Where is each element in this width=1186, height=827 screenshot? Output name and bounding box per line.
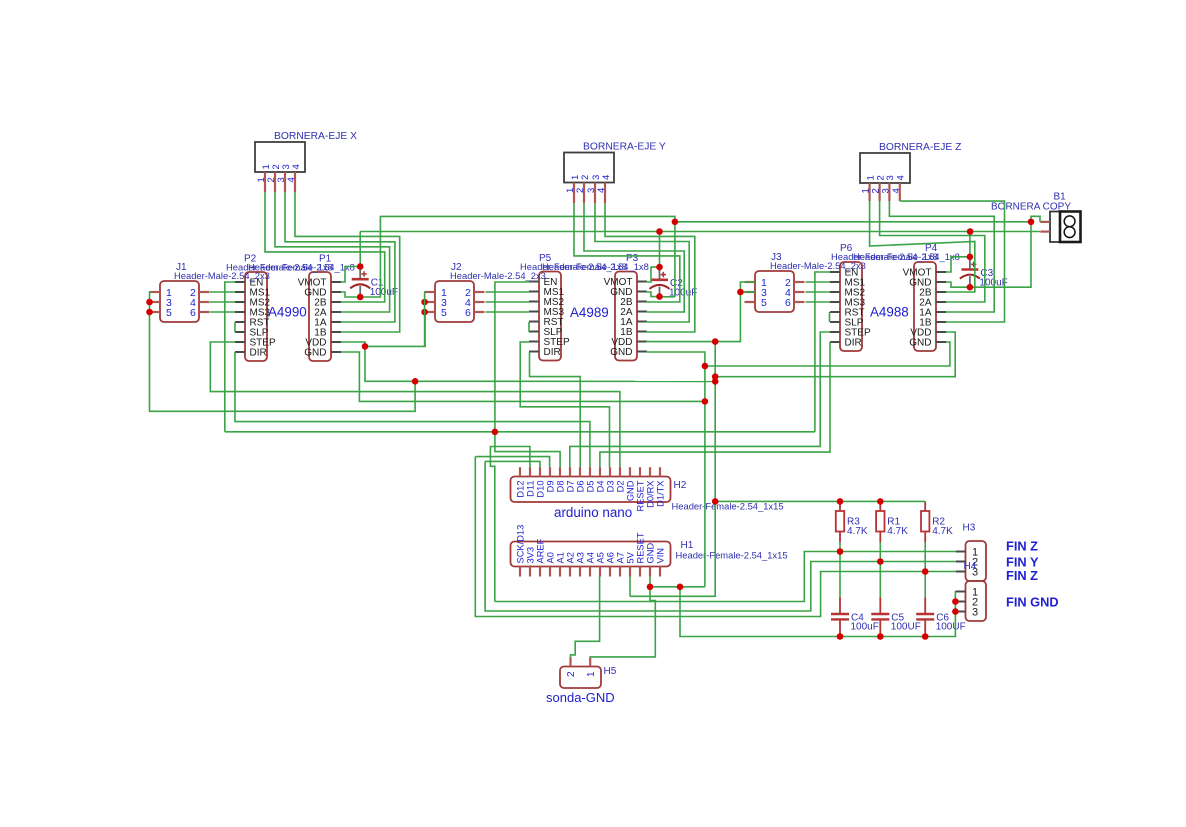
svg-text:5: 5 [166, 307, 172, 319]
capacitor C3 [960, 257, 980, 287]
label Header-Female P5 (overlapped) [520, 261, 627, 272]
wire VDD3 link [715, 332, 955, 377]
svg-text:4: 4 [286, 177, 297, 182]
label Header-Male J3 [770, 260, 866, 271]
wire MS3 driver2 [486, 311, 530, 313]
wire D10 drop [485, 461, 540, 467]
svg-text:2: 2 [580, 175, 591, 180]
header P5 box [539, 272, 561, 361]
svg-text:A3: A3 [576, 552, 586, 563]
junction dot VDD1 [362, 343, 369, 350]
label A4988 [870, 305, 909, 320]
svg-text:A6: A6 [606, 552, 616, 563]
wire GND pin drop H1 [649, 577, 651, 587]
wire GND to H5 pin1 [590, 587, 655, 657]
svg-text:3: 3 [972, 606, 978, 618]
header P4 box [914, 262, 936, 351]
label R1 value [887, 526, 908, 537]
junction dots resistor top bus [837, 498, 884, 505]
wire VDD2 to J3 [715, 282, 755, 342]
pins of P3 [604, 277, 647, 358]
label Header-Female H1 [676, 550, 788, 561]
wire 1B driver3 to bornera Z pin4 [900, 201, 1005, 322]
label FIN GND [1006, 594, 1059, 609]
label J2 [451, 262, 462, 273]
wire 2A driver1 to bornera X pin2 [275, 192, 390, 312]
junction dots H4 [952, 598, 959, 615]
svg-text:GND: GND [646, 543, 656, 564]
wire C1 to VMOT bus [359, 232, 361, 267]
svg-text:SCK/D13: SCK/D13 [516, 525, 526, 564]
wire DIR2 to D6 [530, 352, 581, 467]
svg-text:A0: A0 [546, 552, 556, 563]
wire VDD1 to J2 [365, 312, 425, 346]
wire A5 to H5 pin2 [571, 577, 600, 658]
junction dots VMOT bus [656, 228, 973, 235]
connector H4 box [966, 581, 987, 621]
wire B1 pin1 jog [1031, 216, 1040, 222]
wire R1 to C5 node [879, 542, 881, 597]
pin 3 of BX [276, 164, 292, 192]
label FIN Y [1006, 555, 1039, 570]
svg-text:100UF: 100UF [936, 622, 966, 633]
svg-text:FIN Z: FIN Z [1006, 539, 1038, 554]
wire GND to H1 [650, 586, 705, 588]
wire EN bus [225, 431, 815, 433]
wire MS2 driver3 [806, 291, 831, 293]
label FIN Z (2) [1006, 568, 1038, 583]
label BORNERA COPY [991, 202, 1071, 213]
pin 1 of BX [256, 164, 272, 192]
label P6 [840, 243, 853, 254]
wire STEP2 to D3 [520, 342, 609, 467]
junction dots GND H1 [647, 584, 684, 591]
connector H5 box [560, 667, 601, 689]
label FIN Z [1006, 539, 1038, 554]
svg-text:Header-Female-2.54_1x15: Header-Female-2.54_1x15 [676, 550, 788, 561]
svg-text:D1/TX: D1/TX [656, 481, 666, 507]
svg-text:H4: H4 [964, 561, 977, 572]
capacitor C4 [831, 597, 849, 636]
wire 1A driver3 to bornera Z pin3 [889, 201, 994, 312]
wire C3 to VMOT bus [969, 232, 971, 257]
label R3 value [847, 526, 868, 537]
svg-text:2: 2 [566, 671, 577, 677]
label Header-Female P4 (overlapped) [853, 251, 960, 262]
pins of J1 [150, 287, 210, 319]
wire FIN Y line from D10 [485, 461, 956, 611]
wire MS3 driver1 [210, 311, 235, 313]
wire D11 hook [490, 447, 530, 602]
svg-text:1: 1 [586, 671, 597, 677]
wire GND1 pin2 to C1 [341, 292, 360, 297]
pin 1 of BY [565, 175, 581, 203]
svg-text:A2: A2 [566, 552, 576, 563]
label P3 [626, 253, 639, 264]
wire J3 pin3 nub [740, 291, 755, 293]
svg-text:4: 4 [291, 164, 302, 169]
label arduino nano [554, 505, 632, 520]
wire 2B driver3 to bornera Z pin1 [870, 201, 975, 292]
wire 1B driver1 to bornera X pin4 [295, 192, 400, 332]
junction dots GND bus [672, 219, 1035, 226]
wire MS1 driver3 [806, 281, 831, 283]
svg-text:4: 4 [891, 188, 902, 193]
label C6 [936, 613, 949, 624]
pins of J2 [425, 287, 485, 319]
resistor R1 [876, 501, 884, 542]
label P1 [319, 254, 332, 265]
svg-text:D6: D6 [576, 481, 586, 493]
wire 5V pin drop [629, 577, 631, 597]
wire GND bus east [675, 221, 1031, 223]
svg-text:A1: A1 [556, 552, 566, 563]
label H4 [964, 561, 977, 572]
svg-text:Header-Female-2.54_1x8: Header-Female-2.54_1x8 [542, 261, 649, 272]
svg-text:Header-Female-2.54_1x8: Header-Female-2.54_1x8 [853, 251, 960, 262]
pins of P6 [830, 268, 871, 349]
svg-text:3V3: 3V3 [526, 547, 536, 564]
label C1 [371, 278, 384, 289]
label BORNERA-EJE X [274, 131, 357, 142]
wire C2 to VMOT bus [659, 232, 661, 268]
pins of H2 [516, 467, 666, 511]
svg-text:BORNERA-EJE Z: BORNERA-EJE Z [879, 142, 961, 153]
label Header-Female P6 (overlapped) [831, 251, 938, 262]
junction dot VDD bus west [412, 378, 419, 385]
label B1 [1054, 192, 1067, 203]
svg-text:2: 2 [575, 188, 586, 193]
junction dots GND2 chain [702, 363, 709, 405]
wire H4 pin2 nub [954, 601, 957, 603]
label P4 [925, 243, 938, 254]
wire RST-SLP bracket driver3 [829, 312, 831, 322]
label Header-Male J2 [450, 270, 546, 281]
wire VMOT bus [360, 231, 1040, 233]
label C2 value [669, 288, 697, 299]
wire RST-SLP bracket driver1 [234, 322, 236, 332]
wire GND to caps bottom bus [680, 587, 956, 637]
svg-text:4.7K: 4.7K [847, 526, 868, 537]
svg-text:BORNERA COPY: BORNERA COPY [991, 202, 1071, 213]
svg-text:Header-Male-2.54_2x3: Header-Male-2.54_2x3 [450, 270, 546, 281]
svg-text:100UF: 100UF [891, 622, 921, 633]
connector B1 BORNERA COPY [1040, 212, 1080, 243]
connector BY box (BORNERA-EJE Y) [564, 153, 614, 183]
svg-text:GND: GND [909, 338, 931, 349]
label R2 value [932, 526, 953, 537]
pins of H5 [566, 657, 597, 677]
svg-text:H2: H2 [674, 480, 687, 491]
resistor R3 [836, 501, 844, 542]
svg-text:4: 4 [896, 175, 907, 180]
wire VDD to J1 bus [150, 292, 416, 411]
svg-text:A4: A4 [586, 552, 596, 563]
pin 3 of BY [586, 175, 602, 203]
label A4990 [268, 305, 307, 320]
pins of P2 [235, 278, 276, 359]
wire VMOT2 to C2 [646, 267, 660, 282]
label Header-Male J1 [174, 270, 270, 281]
svg-text:6: 6 [785, 297, 791, 309]
svg-text:BORNERA-EJE X: BORNERA-EJE X [274, 131, 357, 142]
connector J3 box [755, 271, 794, 312]
label C1 value [370, 287, 398, 298]
label Header-Female H2 [672, 501, 784, 512]
wire MS2 driver2 [486, 301, 530, 303]
header H2 box [511, 477, 671, 503]
svg-text:Header-Male-2.54_2x3: Header-Male-2.54_2x3 [770, 260, 866, 271]
label C3 value [979, 277, 1007, 288]
svg-text:3: 3 [880, 188, 891, 193]
pins of H1 [516, 525, 666, 577]
svg-text:D10: D10 [536, 481, 546, 498]
pin 4 of BX [286, 164, 302, 192]
wire VMOT3 to C3 [946, 257, 970, 272]
wire GND2 pin2 to C2 [646, 292, 660, 297]
wire GND3 pin2 to C3 [946, 282, 970, 287]
label J3 [771, 252, 782, 263]
resistor R2 [921, 501, 929, 542]
wire MS2 driver1 [210, 301, 235, 303]
svg-text:D0/RX: D0/RX [646, 481, 656, 508]
wire R2 to C6 node [924, 542, 926, 597]
wire 2A driver3 to bornera Z pin2 [880, 201, 985, 302]
svg-text:Header-Male-2.54_2x3: Header-Male-2.54_2x3 [174, 270, 270, 281]
junction dots C2 [656, 264, 663, 300]
wire EN2 to EN bus and D8 [495, 282, 560, 467]
label C5 value [891, 622, 921, 633]
label P5 [539, 253, 552, 264]
svg-text:D8: D8 [556, 481, 566, 493]
wire EN1 to EN bus [225, 282, 235, 432]
connector J1 box [160, 281, 199, 322]
wire GND1 pin8 to GND bus [341, 352, 705, 401]
pins of P5 [529, 277, 570, 358]
junction dots C1 [357, 263, 364, 300]
wire DIR1 to D5 [235, 352, 590, 467]
label J1 [176, 262, 187, 273]
label C4 [851, 613, 864, 624]
svg-text:DIR: DIR [845, 338, 862, 349]
wire 2B driver1 to bornera X pin1 [265, 192, 385, 302]
label P2 [244, 254, 257, 265]
svg-text:A7: A7 [616, 552, 626, 563]
svg-text:5: 5 [761, 297, 767, 309]
label BORNERA-EJE Z [879, 142, 961, 153]
label R2 [932, 517, 945, 528]
svg-text:H5: H5 [604, 666, 617, 677]
svg-text:GND: GND [610, 347, 632, 358]
header P6 box [840, 262, 862, 351]
label Header-Female P2 (overlapped) [226, 262, 333, 273]
svg-text:5V: 5V [626, 551, 636, 563]
label C2 [670, 278, 683, 289]
svg-text:A4988: A4988 [870, 305, 909, 320]
pin 2 of BX [266, 164, 282, 192]
wire VMOT1 to C1 [341, 267, 360, 283]
capacitor C5 [871, 597, 889, 636]
wire GND2 pin8 chain [646, 352, 705, 587]
pin 2 of BZ [871, 175, 887, 201]
wire R3 to C4 node [839, 542, 841, 597]
wire H4 pin3 nub [954, 611, 957, 613]
wire VDD2 [646, 341, 715, 343]
wire GND3 link [705, 342, 950, 366]
label Header-Female P3 (overlapped) [542, 261, 649, 272]
pins of P4 [903, 268, 946, 349]
svg-text:A4990: A4990 [268, 305, 307, 320]
junction dots VDD2 chain [712, 338, 719, 504]
label H2 [674, 480, 687, 491]
svg-text:VIN: VIN [656, 548, 666, 564]
wire STEP3 to D7 [570, 332, 830, 467]
wire FIN Z line from D11 [495, 552, 956, 602]
wire GND riser driver2 to C2 [660, 296, 675, 298]
svg-text:FIN Z: FIN Z [1006, 568, 1038, 583]
wire 2B driver2 to bornera Y pin1 [574, 203, 680, 302]
pin 3 of BZ [880, 175, 896, 201]
wire VDD bus [415, 380, 715, 382]
wire C3 neg to B1 GND [970, 222, 1031, 287]
wire 1A driver2 to bornera Y pin3 [595, 203, 689, 322]
wire VDD chain to 5V pin [630, 501, 715, 596]
connector J2 box [435, 281, 474, 322]
capacitor C2 [650, 267, 670, 297]
wire MS3 driver3 [806, 301, 831, 303]
wire J2 riser [425, 292, 426, 346]
wire VDD2 chain south [714, 342, 716, 502]
connector BX box (BORNERA-EJE X) [255, 142, 305, 172]
wire STEP1 to D2 [210, 342, 620, 467]
junction dot J3 [737, 289, 744, 296]
pins of H4 [956, 586, 978, 618]
wire 1A driver1 to bornera X pin3 [285, 192, 395, 322]
junction dots caps bottom bus [837, 633, 929, 640]
svg-text:D3: D3 [606, 481, 616, 493]
svg-text:DIR: DIR [250, 348, 267, 359]
svg-text:GND: GND [304, 348, 326, 359]
svg-text:DIR: DIR [544, 347, 561, 358]
svg-text:A4989: A4989 [570, 305, 609, 320]
header P1 box [309, 272, 331, 361]
label H3 [963, 523, 976, 534]
junction dots J2 [421, 299, 428, 316]
svg-text:6: 6 [190, 307, 196, 319]
junction dots FIN lines [837, 548, 929, 575]
junction dots J1 [146, 299, 153, 316]
svg-text:RESET: RESET [636, 480, 646, 511]
label Header-Female P1 (overlapped) [248, 262, 355, 273]
wire DIR3 to D4 [600, 342, 830, 467]
connector H3 box [966, 541, 987, 581]
wire D9 drop [475, 457, 549, 468]
label R3 [847, 517, 860, 528]
wire VDD1 down to VDD bus [365, 346, 415, 381]
svg-text:GND: GND [626, 480, 636, 501]
junction dots C3 [967, 253, 974, 290]
pin 2 of BY [575, 175, 591, 203]
svg-text:arduino nano: arduino nano [554, 505, 632, 520]
label H1 [681, 540, 694, 551]
label H5 [604, 666, 617, 677]
junction dot EN bus [492, 429, 499, 436]
wire VDD1 [341, 342, 365, 346]
label R1 [887, 517, 900, 528]
svg-text:4.7K: 4.7K [887, 526, 908, 537]
wire 2A driver2 to bornera Y pin2 [584, 203, 684, 312]
wire EN3 to EN bus [815, 272, 830, 432]
svg-text:AREF: AREF [536, 538, 546, 563]
svg-text:sonda-GND: sonda-GND [546, 690, 615, 705]
wire C1 neg to GND bus [360, 216, 675, 297]
capacitor C6 [916, 597, 934, 636]
wire RST-SLP bracket driver2 [528, 322, 530, 332]
svg-text:5: 5 [441, 307, 447, 319]
svg-text:D2: D2 [616, 481, 626, 493]
label A4989 [570, 305, 609, 320]
label sonda-GND [546, 690, 615, 705]
connector BZ box (BORNERA-EJE Z) [860, 153, 910, 183]
capacitor C1 [350, 267, 370, 298]
svg-text:4.7K: 4.7K [932, 526, 953, 537]
svg-text:4: 4 [601, 175, 612, 180]
pin 4 of BY [596, 175, 612, 203]
svg-text:H3: H3 [963, 523, 976, 534]
pin 1 of BZ [861, 175, 877, 201]
wire 1B driver2 to bornera Y pin4 [605, 203, 695, 332]
wire resistor top bus [715, 500, 925, 502]
pins of H3 [956, 546, 978, 578]
pins of P1 [298, 278, 341, 359]
pins of J3 [745, 277, 805, 309]
label C6 value [936, 622, 966, 633]
pin 4 of BZ [891, 175, 907, 201]
svg-text:D7: D7 [566, 481, 576, 493]
svg-text:3: 3 [885, 175, 896, 180]
svg-text:D12: D12 [516, 481, 526, 498]
svg-text:100uF: 100uF [851, 622, 879, 633]
svg-text:A5: A5 [596, 552, 606, 563]
label C3 [980, 268, 993, 279]
label C4 value [851, 622, 879, 633]
header P2 box [245, 272, 267, 361]
header H1 box [511, 542, 671, 567]
svg-text:4: 4 [596, 188, 607, 193]
svg-text:D9: D9 [546, 481, 556, 493]
header P3 box [615, 272, 637, 361]
svg-text:RESET: RESET [636, 532, 646, 563]
wire MS1 driver2 [486, 291, 530, 293]
svg-text:FIN GND: FIN GND [1006, 594, 1059, 609]
svg-text:BORNERA-EJE Y: BORNERA-EJE Y [583, 142, 666, 153]
wire FIN Z2 line from D9 [475, 457, 956, 617]
wire MS1 driver1 [210, 291, 235, 293]
label C5 [891, 613, 904, 624]
svg-text:D11: D11 [526, 481, 536, 497]
svg-text:D4: D4 [596, 481, 606, 493]
svg-text:6: 6 [465, 307, 471, 319]
label BORNERA-EJE Y [583, 142, 666, 153]
svg-text:D5: D5 [586, 481, 596, 493]
